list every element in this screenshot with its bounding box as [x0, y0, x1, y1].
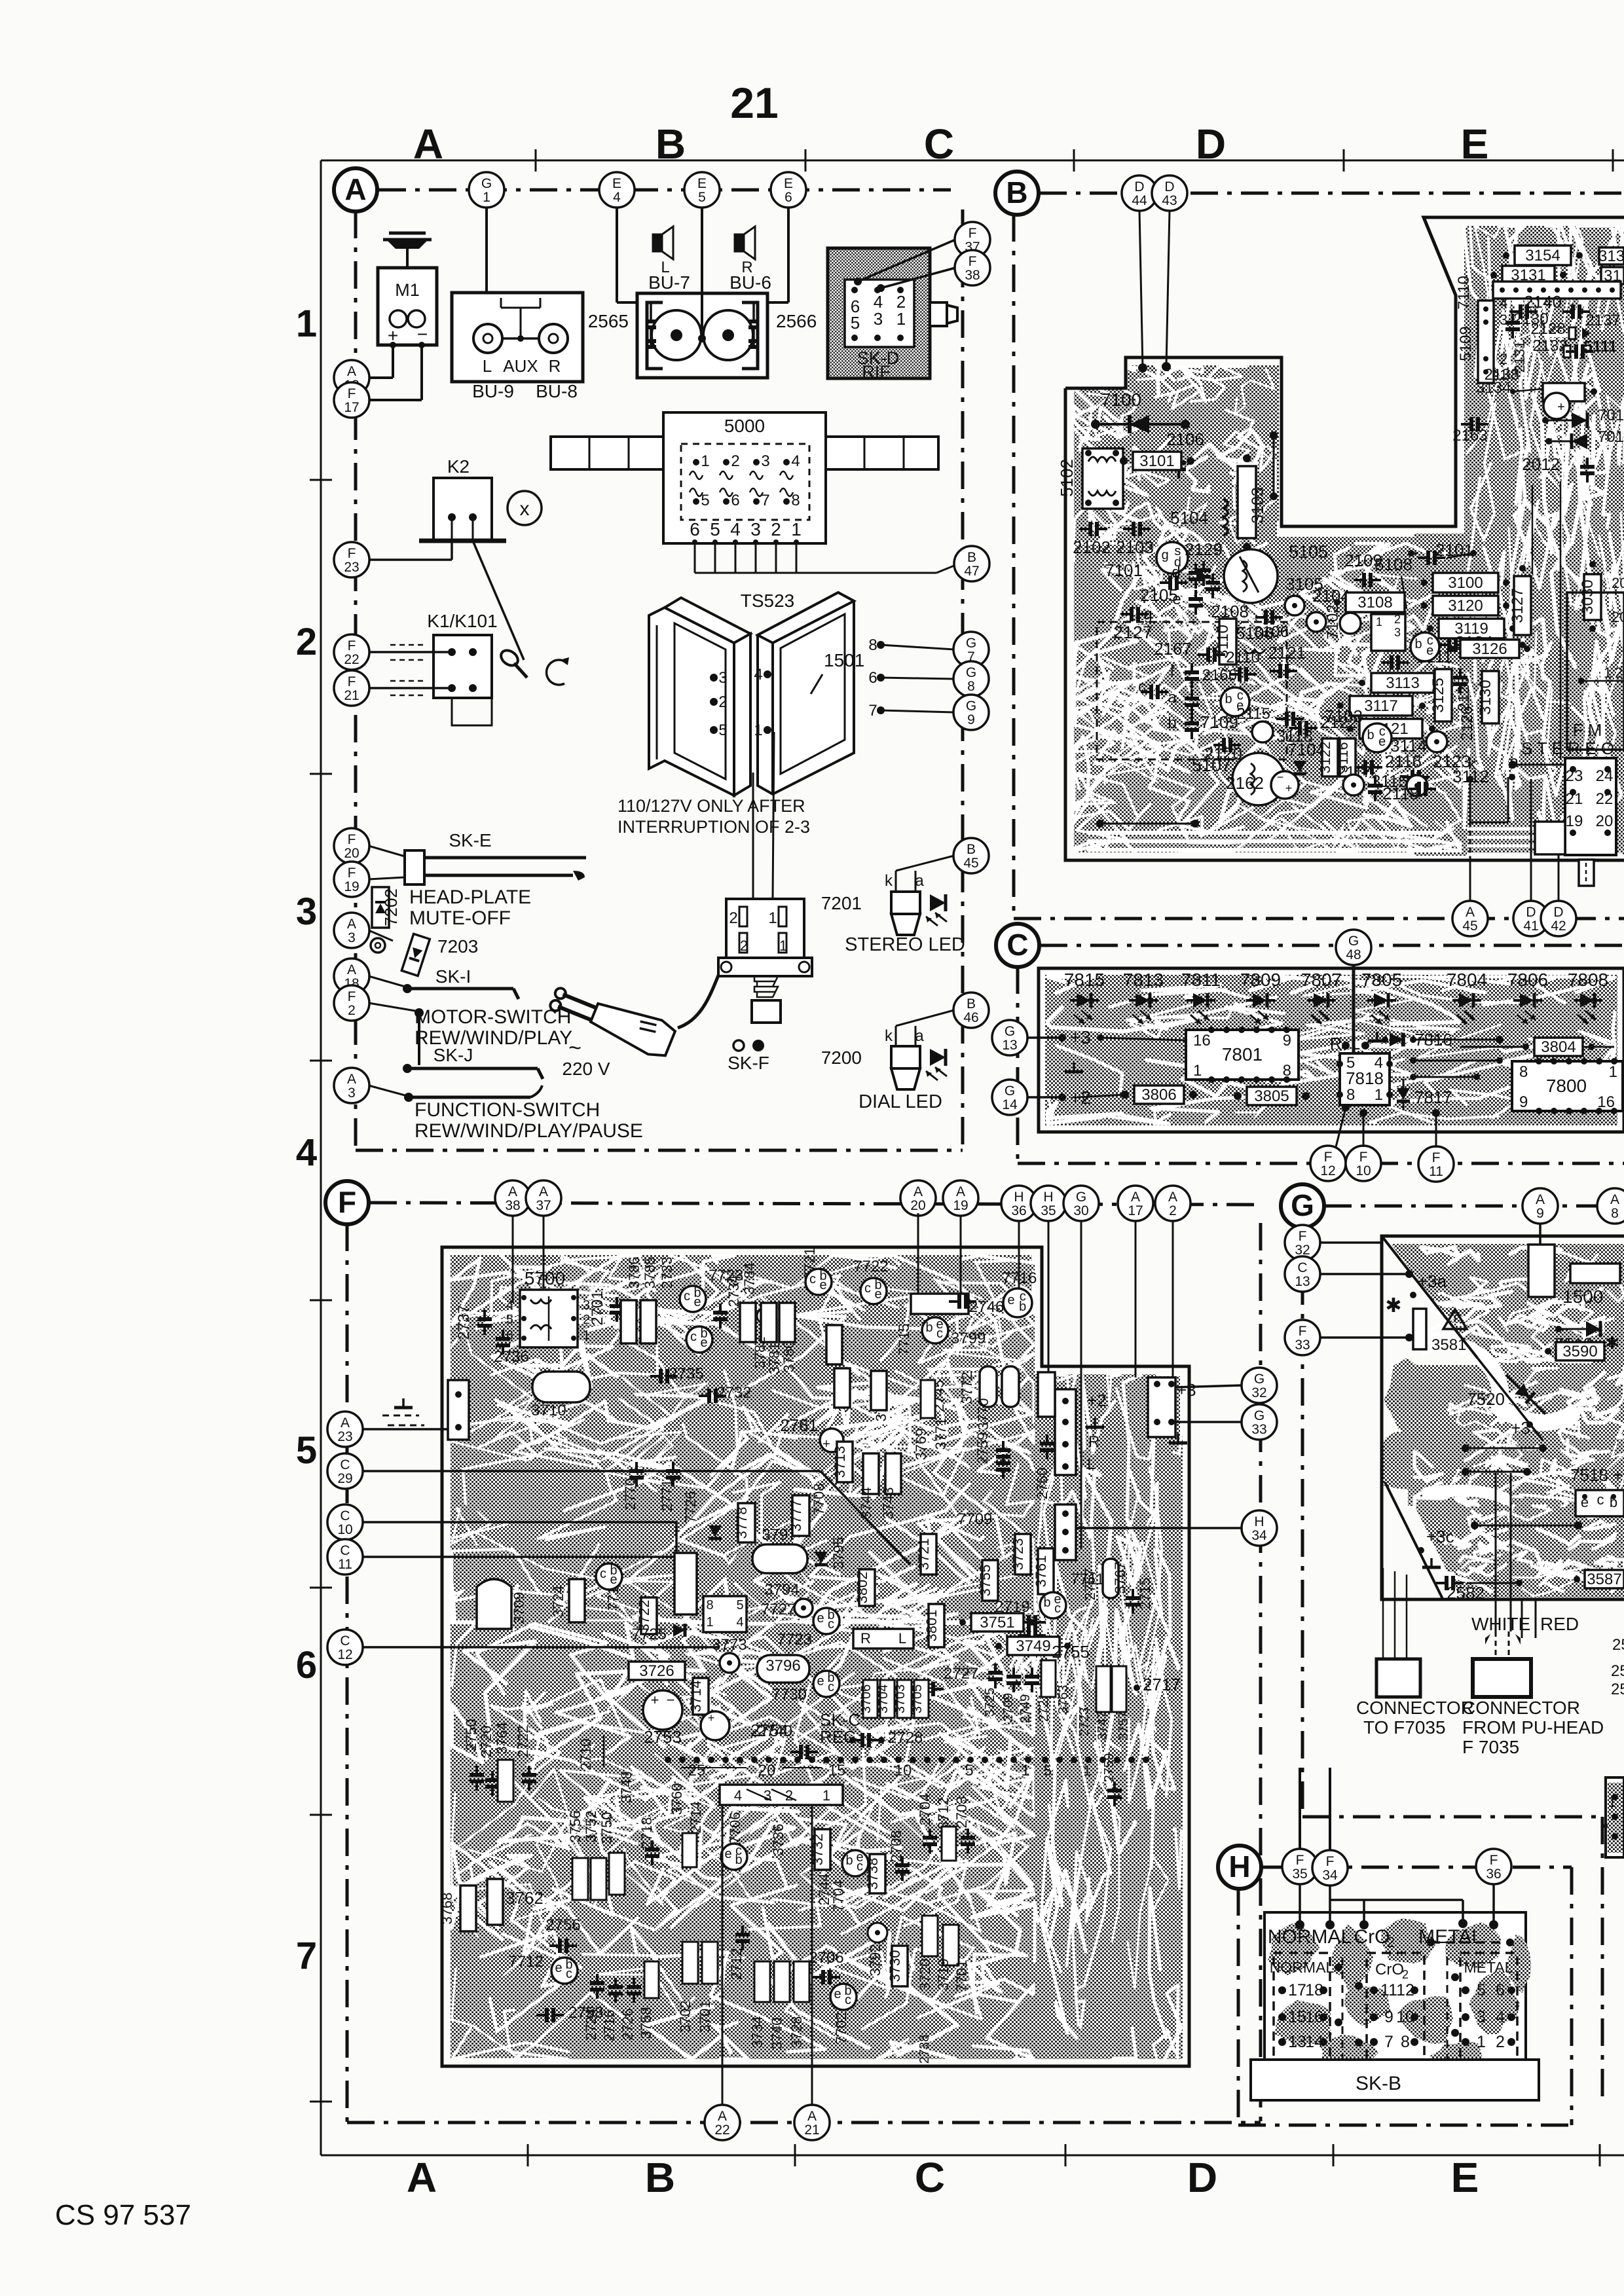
svg-text:R: R	[860, 1630, 871, 1647]
svg-text:C: C	[340, 1457, 350, 1472]
connector circles F12 F10 F11 bottom	[1310, 1146, 1346, 1181]
key symbol	[498, 647, 521, 668]
connector circle G48	[1336, 930, 1371, 965]
svg-text:110/127V ONLY AFTER: 110/127V ONLY AFTER	[618, 796, 805, 816]
svg-text:3125: 3125	[1430, 678, 1447, 712]
3797	[752, 1544, 807, 1573]
svg-text:e: e	[817, 1611, 824, 1626]
svg-text:✱: ✱	[1605, 1333, 1619, 1353]
svg-text:f: f	[1170, 663, 1175, 680]
svg-text:B: B	[655, 120, 686, 168]
svg-text:7715: 7715	[896, 1324, 912, 1356]
svg-text:2753: 2753	[644, 1727, 682, 1747]
wire C12	[362, 1646, 719, 1649]
H35 block	[1038, 1372, 1055, 1417]
3782 3781 3780	[761, 1303, 777, 1342]
svg-text:F: F	[1299, 1229, 1307, 1244]
rotate arrow	[547, 660, 564, 685]
svg-text:4: 4	[736, 1615, 743, 1630]
svg-text:2106: 2106	[1166, 429, 1204, 449]
svg-text:5108: 5108	[1375, 555, 1412, 574]
svg-text:B: B	[967, 550, 976, 565]
svg-text:3103: 3103	[1249, 487, 1267, 524]
svg-text:2726: 2726	[619, 2009, 636, 2041]
svg-text:3728: 3728	[788, 2016, 805, 2049]
svg-text:2162: 2162	[1226, 773, 1264, 793]
resistor 3101	[1133, 452, 1181, 470]
svg-text:G: G	[481, 176, 492, 191]
svg-text:3780: 3780	[781, 1341, 797, 1373]
svg-text:3130: 3130	[1477, 680, 1494, 714]
svg-text:11: 11	[1380, 1981, 1397, 1999]
svg-text:2: 2	[1169, 1203, 1177, 1218]
svg-text:1: 1	[706, 1615, 713, 1630]
svg-text:3751: 3751	[980, 1614, 1014, 1631]
switch SK-I	[369, 976, 407, 987]
3714	[693, 1678, 709, 1715]
svg-text:3768: 3768	[439, 1893, 455, 1925]
svg-text:F: F	[1324, 1150, 1333, 1165]
svg-text:e: e	[874, 1287, 881, 1302]
svg-text:7804: 7804	[1447, 970, 1487, 990]
313x right	[1599, 247, 1624, 264]
svg-text:CS 97 537: CS 97 537	[55, 2199, 191, 2231]
svg-text:25: 25	[1611, 1681, 1624, 1698]
svg-text:G: G	[1348, 934, 1359, 949]
svg-text:A: A	[347, 917, 356, 932]
svg-text:3030: 3030	[1579, 579, 1596, 614]
wires D44 D43 into board	[1139, 211, 1143, 368]
svg-text:5: 5	[851, 313, 860, 333]
svg-text:2: 2	[1500, 351, 1507, 367]
svg-text:1: 1	[754, 721, 762, 739]
svg-text:3786: 3786	[626, 1257, 642, 1289]
svg-text:33: 33	[1295, 1338, 1310, 1353]
A23 ground block	[448, 1380, 469, 1440]
plug SK-E	[405, 850, 424, 884]
svg-text:38: 38	[965, 268, 980, 283]
svg-text:+3: +3	[1070, 1027, 1091, 1048]
svg-text:46: 46	[963, 1010, 978, 1025]
svg-text:+3: +3	[1177, 1380, 1196, 1400]
svg-text:7202: 7202	[381, 888, 401, 926]
svg-text:H: H	[1043, 1190, 1053, 1205]
svg-text:−: −	[1277, 771, 1284, 784]
3131	[1502, 266, 1555, 284]
svg-text:8: 8	[1519, 1063, 1528, 1081]
twin resistors	[1096, 1666, 1111, 1712]
svg-text:D: D	[1164, 179, 1174, 194]
svg-text:5105: 5105	[1289, 542, 1328, 562]
svg-text:c: c	[690, 1330, 697, 1344]
svg-text:2: 2	[348, 1003, 356, 1018]
svg-text:7813: 7813	[1123, 970, 1164, 990]
ground node	[1073, 1063, 1075, 1072]
svg-text:5: 5	[698, 190, 706, 205]
svg-text:43: 43	[1162, 193, 1177, 208]
svg-text:7800: 7800	[1546, 1076, 1587, 1096]
svg-text:2: 2	[1402, 1968, 1409, 1981]
transistor bce 2	[1363, 723, 1392, 752]
svg-text:e: e	[610, 1573, 617, 1587]
svg-text:e: e	[693, 1295, 701, 1309]
IC 7800	[1512, 1061, 1623, 1111]
svg-text:3756: 3756	[567, 1811, 583, 1843]
svg-text:3734: 3734	[749, 2016, 766, 2049]
3127	[1514, 576, 1531, 635]
svg-text:2: 2	[718, 693, 727, 711]
svg-text:b: b	[735, 1853, 742, 1867]
svg-text:20: 20	[758, 1762, 776, 1779]
svg-text:SK-B: SK-B	[1356, 2073, 1401, 2094]
bottom connector row	[665, 1757, 671, 1763]
G48 wire	[1352, 965, 1356, 1061]
wires F into board	[1299, 1884, 1301, 1925]
diode 7817	[1397, 1088, 1410, 1100]
column ticks top	[535, 149, 537, 172]
svg-text:F: F	[1296, 1853, 1304, 1868]
section C boundary	[1040, 944, 1624, 947]
svg-text:1: 1	[779, 938, 787, 954]
transistor bce	[1411, 632, 1439, 661]
svg-text:A: A	[1131, 1190, 1140, 1205]
svg-text:3747: 3747	[1096, 1711, 1110, 1741]
svg-text:3590: 3590	[1562, 1343, 1597, 1360]
svg-text:3755: 3755	[977, 1565, 993, 1597]
svg-text:3767: 3767	[1112, 1562, 1128, 1594]
svg-text:2166: 2166	[1202, 666, 1237, 684]
svg-text:2761: 2761	[780, 1415, 818, 1435]
svg-text:TO F7035: TO F7035	[1363, 1717, 1446, 1738]
svg-text:FROM PU-HEAD: FROM PU-HEAD	[1462, 1717, 1604, 1738]
svg-text:258: 258	[1612, 1636, 1624, 1654]
svg-text:22: 22	[344, 652, 359, 667]
svg-text:SK-J: SK-J	[434, 1045, 473, 1065]
SK-F screw	[754, 976, 778, 997]
3777 7708	[792, 1495, 809, 1536]
3744 3743	[863, 1453, 879, 1494]
svg-text:5: 5	[736, 1598, 743, 1613]
connector circles D44 D43	[1122, 175, 1157, 211]
svg-text:D: D	[1553, 905, 1563, 920]
svg-text:F: F	[1432, 1150, 1441, 1165]
svg-text:12: 12	[337, 1647, 352, 1662]
svg-text:37: 37	[536, 1198, 551, 1213]
svg-text:3778: 3778	[733, 1507, 750, 1539]
svg-text:L: L	[1351, 1034, 1360, 1053]
svg-text:2727: 2727	[944, 1665, 978, 1683]
svg-text:2127: 2127	[1113, 623, 1153, 642]
wire bottom left	[1100, 823, 1195, 825]
svg-text:3799: 3799	[951, 1330, 986, 1347]
svg-text:2724: 2724	[583, 2009, 599, 2041]
svg-text:25: 25	[1611, 1662, 1624, 1680]
wires A22 A21	[722, 2066, 724, 2105]
svg-text:D: D	[1526, 905, 1536, 920]
svg-text:c: c	[684, 1289, 690, 1303]
svg-text:2582: 2582	[1447, 1583, 1485, 1603]
SK-B connector	[1251, 2060, 1539, 2100]
svg-text:1: 1	[1083, 1762, 1091, 1779]
3030	[1584, 574, 1601, 620]
svg-text:+2: +2	[1087, 1391, 1107, 1410]
svg-text:7100: 7100	[1101, 390, 1141, 410]
svg-text:12: 12	[1320, 1163, 1335, 1178]
svg-text:2750: 2750	[463, 1719, 479, 1751]
svg-text:3: 3	[348, 1085, 356, 1101]
svg-text:+: +	[1285, 782, 1293, 795]
resistor 3110	[1219, 619, 1236, 665]
svg-text:3701: 3701	[697, 2001, 713, 2033]
2702 3710	[532, 1372, 590, 1402]
svg-text:11: 11	[338, 1557, 352, 1572]
motor M1	[406, 246, 409, 268]
svg-text:2717: 2717	[1143, 1675, 1181, 1694]
svg-text:7730: 7730	[772, 1686, 807, 1704]
svg-text:23: 23	[337, 1429, 352, 1444]
svg-text:3749: 3749	[1016, 1637, 1050, 1655]
svg-text:B: B	[967, 996, 976, 1011]
3125	[1435, 669, 1452, 721]
svg-text:2701: 2701	[589, 1290, 606, 1325]
3734 3740 3728	[754, 1961, 770, 2002]
svg-text:9: 9	[967, 712, 975, 727]
svg-text:3736: 3736	[770, 1824, 786, 1856]
svg-text:3764: 3764	[494, 1722, 510, 1755]
speaker box 2565/2566	[637, 293, 767, 378]
svg-text:2755: 2755	[1052, 1642, 1090, 1662]
svg-text:20: 20	[910, 1198, 925, 1213]
svg-text:21: 21	[344, 688, 359, 703]
svg-text:3720: 3720	[917, 1959, 933, 1991]
transformer 5102	[1082, 448, 1123, 509]
svg-text:2566: 2566	[776, 311, 817, 331]
svg-text:d: d	[1172, 564, 1180, 581]
function switch	[369, 1085, 407, 1096]
svg-text:42: 42	[1551, 919, 1566, 934]
svg-text:3770: 3770	[975, 1398, 991, 1430]
AUX sockets BU-9 BU-8	[452, 293, 583, 382]
svg-text:A: A	[1536, 1192, 1545, 1207]
svg-text:7203: 7203	[437, 936, 478, 957]
svg-text:G: G	[1005, 1024, 1015, 1039]
svg-text:1: 1	[1609, 1063, 1617, 1081]
svg-text:D: D	[1187, 2154, 1217, 2201]
box around right splitter	[1567, 592, 1624, 750]
resistor 3103	[1238, 466, 1256, 538]
svg-text:1: 1	[896, 309, 906, 329]
svg-text:A: A	[1466, 905, 1475, 920]
svg-text:A: A	[807, 2109, 817, 2124]
svg-text:7808: 7808	[1568, 970, 1608, 990]
block C10 C11	[674, 1553, 697, 1614]
svg-text:6: 6	[296, 1644, 317, 1686]
svg-text:+3c: +3c	[1426, 1527, 1454, 1546]
svg-text:D: D	[1196, 120, 1226, 168]
wire C29	[362, 1470, 821, 1472]
svg-text:313: 313	[1598, 247, 1624, 265]
svg-text:4: 4	[613, 190, 621, 205]
svg-text:6: 6	[784, 190, 792, 205]
svg-text:2714: 2714	[688, 1802, 704, 1834]
svg-text:F: F	[348, 866, 356, 881]
R L block	[853, 1629, 913, 1649]
svg-text:G: G	[1254, 1408, 1264, 1423]
mid pins	[1335, 1963, 1342, 1971]
svg-text:48: 48	[1346, 947, 1361, 962]
svg-text:7704: 7704	[830, 1880, 847, 1912]
outer border top rule	[321, 160, 1624, 162]
svg-text:34: 34	[1251, 1528, 1267, 1543]
svg-text:F: F	[348, 832, 356, 847]
svg-text:!: !	[1453, 1312, 1457, 1328]
wires to G7 G8 G9	[881, 645, 954, 649]
svg-text:10: 10	[337, 1522, 352, 1537]
svg-text:3713: 3713	[832, 1446, 848, 1478]
svg-text:1: 1	[1375, 1086, 1383, 1104]
LED board copper	[1045, 975, 1617, 1125]
svg-text:36: 36	[1486, 1867, 1501, 1882]
svg-text:2759: 2759	[974, 1432, 991, 1465]
svg-text:20: 20	[344, 846, 359, 861]
svg-text:4: 4	[734, 1787, 742, 1804]
svg-text:7518 +2b: 7518 +2b	[1570, 1465, 1624, 1485]
svg-text:3795: 3795	[830, 1537, 847, 1569]
svg-text:RED: RED	[1540, 1614, 1579, 1634]
svg-text:3785: 3785	[642, 1257, 658, 1289]
svg-text:2132: 2132	[1532, 337, 1567, 355]
svg-text:c: c	[857, 1859, 863, 1874]
svg-text:4: 4	[791, 452, 800, 470]
svg-text:DIAL LED: DIAL LED	[858, 1091, 942, 1112]
svg-text:5: 5	[506, 1313, 513, 1327]
svg-text:2712: 2712	[728, 1948, 745, 1980]
section label A	[334, 168, 377, 211]
connector circles G top	[1522, 1188, 1558, 1224]
section label B	[995, 172, 1039, 215]
connector circles A45 D41 D42 on B bottom edge	[1452, 901, 1488, 936]
svg-text:22: 22	[714, 2123, 729, 2138]
svg-text:3113: 3113	[1386, 674, 1420, 692]
svg-text:5: 5	[1477, 1981, 1486, 1999]
G board outline	[1382, 1236, 1624, 1599]
svg-text:b: b	[1019, 1300, 1026, 1314]
svg-text:A: A	[347, 962, 356, 977]
7724	[686, 1326, 712, 1353]
svg-text:3772: 3772	[959, 1372, 975, 1404]
svg-text:5109: 5109	[1457, 326, 1475, 361]
connector circles F top edge	[495, 1180, 530, 1216]
svg-text:b: b	[1168, 714, 1176, 732]
3721	[921, 1534, 936, 1575]
svg-text:E: E	[1451, 2154, 1479, 2201]
svg-text:F: F	[348, 989, 356, 1004]
svg-text:2703: 2703	[953, 1796, 970, 1829]
svg-text:MUTE-OFF: MUTE-OFF	[409, 907, 511, 929]
svg-text:7201: 7201	[821, 893, 862, 913]
diode 7816	[1390, 1033, 1403, 1047]
svg-text:3796: 3796	[766, 1657, 800, 1675]
svg-text:R: R	[549, 356, 561, 376]
svg-text:A: A	[341, 1415, 350, 1430]
svg-text:3154: 3154	[1525, 247, 1560, 264]
svg-text:2140: 2140	[1524, 292, 1562, 312]
svg-text:F: F	[338, 1185, 356, 1219]
svg-text:7712: 7712	[509, 1953, 544, 1971]
connector from PU-head	[1473, 1659, 1531, 1697]
svg-text:1: 1	[1477, 2033, 1486, 2051]
2753	[643, 1690, 682, 1730]
svg-text:A: A	[913, 1184, 923, 1199]
svg-text:7: 7	[296, 1935, 317, 1977]
svg-text:8: 8	[1346, 1086, 1355, 1104]
svg-text:F: F	[348, 638, 356, 653]
svg-text:A: A	[956, 1184, 965, 1199]
svg-text:1: 1	[583, 1328, 590, 1343]
svg-text:H: H	[1228, 1850, 1250, 1884]
svg-text:3106: 3106	[1254, 623, 1289, 641]
svg-text:13: 13	[1288, 2033, 1306, 2051]
svg-text:1: 1	[768, 909, 777, 927]
svg-text:3744: 3744	[858, 1487, 874, 1520]
coil 5107	[1232, 753, 1285, 805]
svg-text:2716: 2716	[601, 2010, 618, 2042]
svg-text:k: k	[1468, 754, 1477, 773]
svg-text:2740: 2740	[758, 1722, 792, 1740]
B board outline	[1065, 217, 1624, 526]
3702 3701	[682, 1942, 698, 1984]
svg-text:3725: 3725	[983, 1688, 997, 1717]
svg-text:METAL: METAL	[1464, 1959, 1513, 1976]
svg-text:CrO: CrO	[1354, 1926, 1390, 1948]
svg-text:3794: 3794	[764, 1581, 799, 1599]
svg-text:2: 2	[771, 519, 781, 539]
svg-text:A: A	[413, 120, 443, 168]
svg-text:45: 45	[1462, 919, 1477, 934]
svg-text:c: c	[1597, 1491, 1604, 1508]
svg-text:7806: 7806	[1507, 970, 1548, 990]
3126	[1460, 640, 1519, 658]
connector circles F35 F34 F36	[1282, 1849, 1318, 1884]
svg-text:CONNECTOR: CONNECTOR	[1356, 1698, 1474, 1718]
svg-text:F: F	[348, 386, 356, 401]
svg-text:3703: 3703	[893, 1685, 908, 1714]
svg-text:7702: 7702	[833, 2013, 849, 2045]
svg-text:5: 5	[1044, 1762, 1052, 1779]
IC box small	[1371, 614, 1405, 651]
bottom-right connector dots	[1042, 1757, 1048, 1763]
svg-text:e: e	[819, 1278, 826, 1292]
svg-text:1: 1	[1021, 1762, 1029, 1779]
svg-text:3806: 3806	[1141, 1086, 1176, 1104]
svg-text:2126: 2126	[1458, 706, 1476, 740]
section B boundary	[1039, 192, 1624, 195]
svg-text:E: E	[612, 176, 621, 191]
svg-text:e: e	[724, 1847, 731, 1861]
svg-text:2: 2	[740, 938, 748, 954]
svg-text:3743: 3743	[880, 1487, 896, 1520]
svg-text:3: 3	[750, 519, 761, 539]
svg-text:3: 3	[1394, 626, 1401, 639]
svg-text:2757: 2757	[1082, 1569, 1098, 1601]
resistors top	[621, 1300, 637, 1343]
svg-text:e: e	[700, 1336, 707, 1350]
svg-text:SK-E: SK-E	[449, 830, 491, 850]
tape select board	[1264, 1912, 1526, 2070]
svg-text:10: 10	[1356, 1163, 1371, 1178]
G30 H34 block	[1055, 1504, 1076, 1560]
svg-text:17: 17	[1128, 1203, 1143, 1218]
